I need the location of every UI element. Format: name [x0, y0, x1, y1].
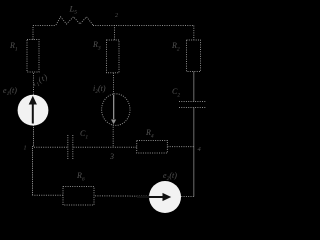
wire left branch top vertical [32, 26, 34, 40]
source circle e1 (left, white) [18, 95, 49, 126]
wire bottom left segment [33, 194, 64, 196]
arrow of source e2 (right) [137, 193, 171, 201]
wire middle branch to node 3 [112, 125, 114, 148]
svg-text:1: 1 [24, 146, 27, 152]
arrow of middle source (down) [111, 95, 116, 124]
source circle dotted middle [102, 94, 130, 126]
capacitor C1 left plate [67, 135, 69, 160]
wire bottom between source and R6 box [94, 195, 149, 197]
wire right branch upper vertical [193, 26, 195, 41]
wire top-left horizontal [33, 25, 56, 27]
resistor R1 box [27, 40, 39, 73]
wire middle branch below R3 [113, 73, 115, 95]
wire middle horizontal C1 to node 3 [74, 146, 137, 148]
wire bottom right segment [181, 196, 194, 198]
wire middle horizontal left of C1 [34, 146, 68, 148]
wire left branch lower vertical [33, 126, 34, 196]
wire top middle [93, 25, 194, 27]
resistor L5 top zigzag [56, 17, 93, 25]
resistor R3 box [107, 40, 120, 73]
capacitor C2 top plate [179, 101, 206, 103]
svg-text:2: 2 [115, 13, 118, 19]
capacitor C1 right plate [72, 135, 74, 160]
wire left branch between circle and box R1 [33, 72, 35, 95]
wire middle horizontal R4 to node 4 [167, 146, 193, 148]
source circle e2 (right, white) [149, 181, 181, 213]
svg-text:3: 3 [109, 152, 114, 161]
wire middle branch from node 2 [114, 25, 116, 40]
resistor R4 box [137, 141, 168, 154]
arrow of source e1 (up) [29, 96, 37, 124]
capacitor C2 bottom plate [179, 107, 206, 109]
wire right branch mid vertical [193, 72, 195, 102]
resistor R2 box [187, 40, 201, 72]
wire right branch lower vertical [193, 108, 195, 197]
resistor R6 box bottom [63, 187, 94, 206]
